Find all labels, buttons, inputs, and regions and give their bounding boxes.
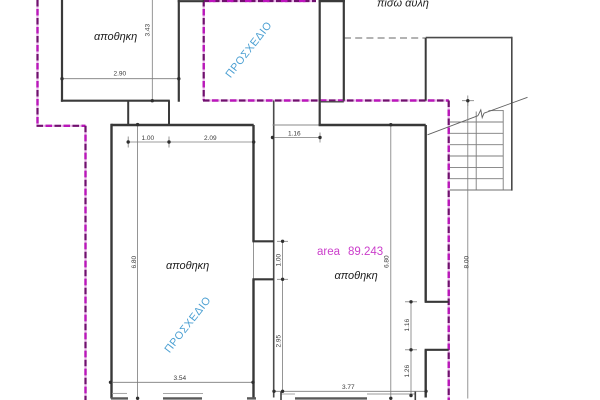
- svg-text:6.80: 6.80: [131, 255, 138, 268]
- dim 8.00 x=467.8: [467, 101, 469, 399]
- svg-text:1.16: 1.16: [288, 131, 301, 138]
- dim ticks: [127, 137, 129, 148]
- svg-text:3.77: 3.77: [342, 384, 355, 391]
- svg-text:area: area: [317, 246, 341, 258]
- dim 2.90 y=78.7: [62, 78, 179, 80]
- svg-text:1.26: 1.26: [404, 364, 411, 377]
- right room top wall y=125: [319, 124, 426, 126]
- stairs up-direction diagonal with break: [428, 97, 528, 135]
- stairs treads: [450, 110, 503, 190]
- boundary dashed magenta: left vertical x=37.5: [37, 0, 449, 400]
- svg-text:πίσω αυλή: πίσω αυλή: [377, 0, 429, 10]
- svg-text:1.00: 1.00: [142, 135, 155, 142]
- door sill wall y=279.3: [252, 278, 274, 280]
- svg-text:3.54: 3.54: [174, 375, 187, 382]
- svg-text:αποθηκη: αποθηκη: [335, 270, 378, 282]
- dim 1.00 / 2.09 y=142: [128, 141, 254, 143]
- boundary right vertical x=448.7: [448, 101, 450, 400]
- wall bottom y=100.7: [61, 100, 170, 102]
- wall top jog y=1.2: [178, 0, 204, 2]
- dim 6.80 left x=137.6: [137, 125, 139, 399]
- boundary jog horizontal y=125.8: [37, 125, 86, 127]
- dim 6.80 right x=390.8: [390, 125, 392, 399]
- svg-text:8.00: 8.00: [464, 255, 471, 268]
- main room top wall y=125: [111, 124, 253, 126]
- wall left x=62: [61, 0, 63, 102]
- wall right x=178.8: [178, 0, 180, 102]
- divider wall left line x=253.5: [252, 125, 254, 242]
- boundary horizontal y=100.5: [203, 99, 449, 101]
- stairs verticals: [475, 112, 477, 191]
- main room left wall x=111.5: [110, 124, 112, 399]
- svg-text:αποθηκη: αποθηκη: [166, 260, 209, 272]
- backyard chimney structure x=319.7..343.8: [319, 0, 321, 125]
- dim 3.77 y=391.3: [274, 390, 426, 392]
- bottom wall segments outer y=398.4: [111, 397, 367, 399]
- dim 3.43 x=152.3: [151, 0, 153, 101]
- top-right room: [426, 37, 512, 39]
- svg-text:89.243: 89.243: [348, 246, 383, 258]
- svg-text:6.80: 6.80: [384, 255, 391, 268]
- divider wall right line x=273.7: [273, 101, 275, 398]
- boundary vertical x=203.7 (top middle): [203, 0, 205, 101]
- svg-text:2.09: 2.09: [204, 135, 217, 142]
- svg-text:2.95: 2.95: [276, 334, 283, 347]
- wall stub x=169: [168, 101, 170, 126]
- door head wall y=241.3: [252, 240, 274, 242]
- stub to boundary y=349.8: [425, 349, 449, 351]
- dim 1.00 / 2.95 x=282.6: [282, 241, 284, 391]
- svg-text:3.43: 3.43: [145, 23, 152, 36]
- boundary pale underlay: [37, 0, 449, 400]
- stairs bottom line: [450, 189, 512, 191]
- wall stub x=128.2: [127, 101, 129, 126]
- svg-text:2.90: 2.90: [114, 71, 127, 78]
- stub under boundary y=101.8: [320, 101, 344, 103]
- bottom wall inner thin y=393.5: [112, 392, 415, 395]
- threshold thin line y=125 between divider and right room: [273, 124, 321, 126]
- svg-text:αποθηκη: αποθηκη: [94, 31, 137, 43]
- svg-text:1.16: 1.16: [404, 318, 411, 331]
- bottom window jambs: [281, 391, 415, 400]
- break zigzag: [478, 110, 484, 118]
- boundary top edge y=1: [204, 0, 316, 2]
- dim 1.16 / 1.26 x=411: [410, 302, 412, 396]
- dimension dots: [60, 77, 469, 400]
- svg-text:1.00: 1.00: [276, 253, 283, 266]
- stub to boundary y=301.8: [425, 301, 449, 303]
- hidden dashed line y=38: [344, 37, 426, 39]
- boundary left-lower vertical x=85.5: [84, 126, 86, 400]
- right room right wall x=425.7 upper: [425, 38, 427, 101]
- dim 1.16 y=137.5: [273, 137, 321, 139]
- dim 3.54 y=382.3: [111, 381, 254, 383]
